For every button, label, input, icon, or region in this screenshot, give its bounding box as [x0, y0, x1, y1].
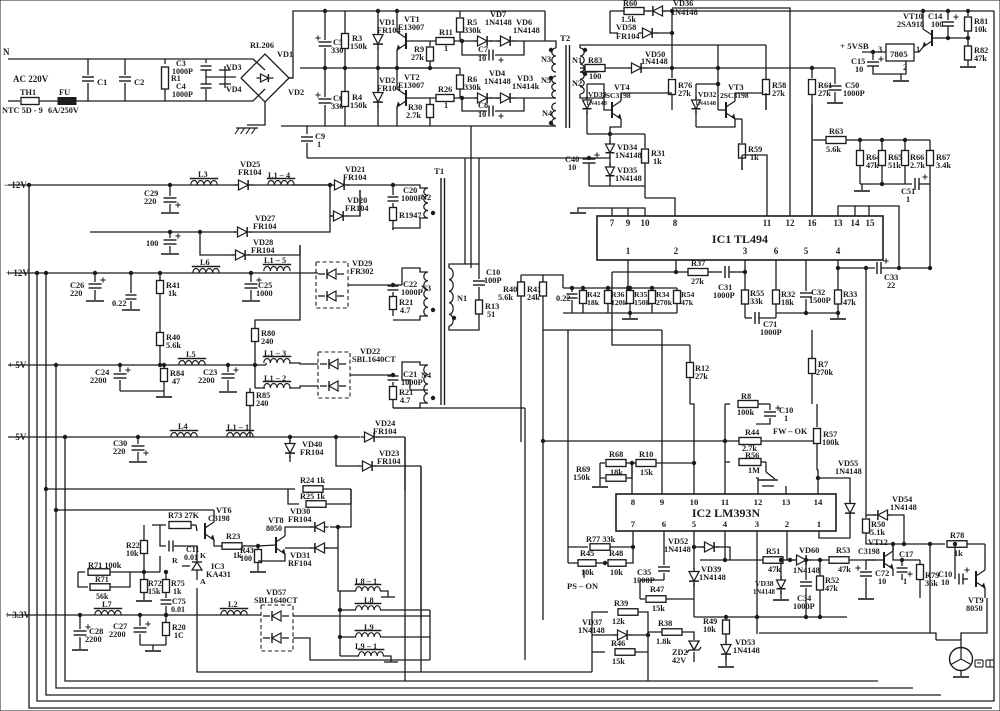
wire PS-ON drop [583, 570, 585, 578]
wire R58 VT3 emitter [765, 93, 767, 110]
svg-text:R8: R8 [741, 392, 751, 401]
svg-text:R83: R83 [588, 56, 602, 65]
svg-text:1N4148: 1N4148 [753, 589, 776, 596]
wire R67 bottom vertical [929, 184, 931, 268]
svg-text:4.7: 4.7 [400, 306, 410, 315]
capacitor C28 2200 [72, 615, 103, 650]
resistor R57 100k [814, 404, 840, 470]
svg-text:15k: 15k [640, 468, 653, 477]
svg-text:10: 10 [478, 110, 486, 119]
capacitor C50 1000P [829, 68, 865, 102]
svg-text:R11: R11 [439, 28, 453, 37]
inductor L9-1 [340, 642, 398, 662]
svg-text:120k: 120k [611, 298, 628, 307]
resistor R34 270k [649, 288, 673, 313]
wire mid bus under IC2 [694, 615, 847, 618]
svg-text:8: 8 [631, 497, 636, 507]
diode VD38 1N4148 [753, 558, 786, 599]
wire R12 top [612, 288, 690, 345]
capacitor C 100 [146, 230, 181, 254]
svg-text:R73 27K: R73 27K [168, 511, 200, 520]
capacitor C22 1000P [388, 280, 423, 297]
svg-text:1: 1 [903, 577, 907, 586]
svg-text:R25 1k: R25 1k [300, 492, 326, 501]
wire AC line top [8, 59, 265, 70]
svg-text:R77 33k: R77 33k [586, 535, 616, 544]
text +12V rail [6, 268, 29, 278]
svg-text:2.7k: 2.7k [910, 161, 925, 170]
resistor R49 10k [703, 617, 730, 643]
capacitor C24 2200 [90, 365, 131, 391]
diode VD20 FR104 [328, 183, 368, 221]
svg-text:10: 10 [941, 578, 949, 587]
rectifier VD57 SBL1640CT dual diode [254, 588, 298, 651]
svg-text:22: 22 [887, 281, 895, 290]
text FW - OK [773, 427, 808, 436]
wire N2 bottom to VD33 [587, 84, 604, 98]
svg-text:270k: 270k [656, 298, 673, 307]
capacitor C31 1000P [713, 266, 745, 300]
svg-text:FR104: FR104 [377, 457, 401, 466]
wire IC1 pin 16 up [811, 104, 813, 216]
svg-text:4: 4 [836, 246, 841, 256]
svg-text:L1 – 4: L1 – 4 [268, 171, 290, 180]
svg-text:330k: 330k [464, 83, 481, 92]
ground IC1 pin7 [570, 212, 586, 214]
svg-text:IC1 TL494: IC1 TL494 [712, 232, 768, 246]
diode VD36 1N4148 [644, 0, 994, 17]
svg-text:1000: 1000 [256, 289, 273, 298]
capacitor C7 [462, 41, 524, 63]
svg-text:FW – OK: FW – OK [773, 427, 808, 436]
svg-text:51k: 51k [888, 161, 901, 170]
diode VD60 1N4148 [793, 546, 830, 575]
svg-text:FR104: FR104 [251, 246, 275, 255]
svg-text:1N4148: 1N4148 [484, 77, 511, 86]
transistor VT9 8050 [966, 544, 985, 613]
capacitor C34 1000P [793, 558, 815, 617]
resistor R73 27K [152, 511, 200, 529]
svg-text:L4: L4 [178, 422, 188, 431]
svg-text:47k: 47k [768, 565, 781, 574]
diode VD37 1N4148 [578, 618, 650, 640]
svg-text:51: 51 [487, 310, 495, 319]
diode VD3 1N414k [489, 74, 540, 103]
resistor R68 18k [600, 450, 636, 477]
svg-text:4: 4 [723, 519, 728, 529]
inductor L7 [94, 600, 122, 615]
svg-text:R60: R60 [623, 0, 637, 8]
ground C50 [827, 102, 843, 104]
svg-text:1N4148: 1N4148 [695, 100, 717, 107]
IC2 bottom pin numbers [631, 519, 821, 529]
inductor L9 [340, 623, 430, 637]
svg-text:1N4148: 1N4148 [641, 57, 668, 66]
svg-text:10: 10 [855, 65, 863, 74]
svg-text:1: 1 [626, 246, 631, 256]
wire top feed vertical [670, 9, 673, 34]
ground R69 [592, 478, 608, 487]
svg-text:IC2 LM393N: IC2 LM393N [692, 506, 761, 520]
wire pin9 link [543, 329, 662, 331]
resistor R58 27k [763, 45, 787, 110]
fan symbol [950, 648, 995, 671]
resistor R13 51 [449, 300, 499, 330]
svg-text:C1: C1 [97, 77, 107, 87]
ground resistor row [622, 313, 638, 319]
transistor VT10 2SA918 [897, 12, 948, 52]
svg-text:47k: 47k [866, 161, 879, 170]
wire base node VT1 [454, 39, 478, 42]
svg-text:R56: R56 [745, 451, 759, 460]
capacitor C2 [119, 59, 144, 101]
diode VD28 FR104 [232, 238, 301, 260]
wire IC2 pin8 up [631, 463, 633, 494]
wire -5V bus drop B [197, 588, 592, 672]
transformer T2 core [560, 33, 571, 128]
svg-text:0.01: 0.01 [184, 553, 198, 562]
wire VD55 to pin1 [819, 531, 850, 538]
svg-text:RF104: RF104 [288, 559, 312, 568]
svg-text:3: 3 [755, 519, 760, 529]
svg-text:5: 5 [692, 519, 697, 529]
svg-text:10k: 10k [581, 568, 594, 577]
resistor R7 270k [809, 330, 834, 404]
svg-text:N3: N3 [421, 284, 431, 293]
wire +3.3V rail [8, 613, 261, 616]
wire right sense vertical [864, 266, 867, 515]
svg-text:E13007: E13007 [398, 23, 424, 32]
resistor R56 1M [725, 451, 766, 475]
svg-text:1k: 1k [173, 587, 182, 596]
capacitor C72 10 [855, 560, 889, 598]
resistor R3 [342, 11, 368, 68]
resistor R26 [436, 85, 454, 110]
svg-text:R47: R47 [650, 585, 664, 594]
resistor R33 47k [835, 268, 858, 313]
svg-text:150k: 150k [573, 473, 590, 482]
wire N4 tap [402, 375, 428, 390]
wire VT4 emitter node [587, 132, 645, 135]
svg-text:FR302: FR302 [350, 267, 374, 276]
svg-text:0.22: 0.22 [112, 299, 127, 308]
svg-text:N1: N1 [457, 294, 467, 303]
svg-text:VD1: VD1 [277, 50, 293, 59]
svg-text:1: 1 [444, 44, 448, 53]
svg-text:12k: 12k [612, 617, 625, 626]
diode VD34 1N4148 [606, 134, 642, 163]
svg-text:N: N [3, 47, 10, 57]
diode VD53 1N4148 [721, 638, 760, 666]
wire R61 bottom [811, 104, 813, 215]
IC1 top pin numbers [610, 218, 875, 228]
diode VD6 1N4148 [489, 18, 545, 46]
svg-text:27k: 27k [411, 53, 424, 62]
svg-text:9: 9 [660, 497, 665, 507]
text -5V rail [8, 432, 27, 442]
resistor R32 18k [773, 290, 796, 313]
wire VD29 out [348, 283, 395, 286]
wire L8 feed from VD30 [338, 548, 340, 591]
wire L8 L9 left bus [338, 591, 341, 656]
svg-text:1N4148: 1N4148 [513, 26, 540, 35]
svg-text:FR104: FR104 [616, 32, 640, 41]
wire FW-OK line [541, 439, 740, 442]
wire VT6 collector top [56, 509, 214, 511]
wire R81 C14 node [948, 36, 970, 39]
svg-text:R68: R68 [609, 450, 623, 459]
svg-text:36k: 36k [925, 579, 938, 588]
wire AC line bottom left [8, 100, 20, 102]
svg-text:1N4148: 1N4148 [615, 174, 642, 183]
zener ZD2 42V [672, 641, 701, 665]
wire R41 long vertical [542, 330, 544, 441]
IC U1 TL494 [597, 216, 883, 260]
wire C17 top [893, 544, 920, 560]
svg-text:R51: R51 [766, 547, 780, 556]
wire R40 long vertical [520, 330, 522, 442]
wire 5VSB feed [813, 139, 826, 141]
svg-text:2200: 2200 [198, 376, 215, 385]
wire top bus right end [993, 11, 995, 208]
resistor R44 2.7k [739, 428, 817, 453]
svg-text:L1 – 3: L1 – 3 [264, 349, 286, 358]
capacitor C30 220 [113, 437, 149, 462]
svg-text:R53: R53 [836, 546, 850, 555]
capacitor C33 22 [838, 258, 901, 290]
resistor R79 36k [917, 560, 940, 598]
svg-text:1N4148: 1N4148 [733, 646, 760, 655]
svg-text:1000P: 1000P [172, 90, 193, 99]
svg-text:L5: L5 [186, 350, 196, 359]
transformer T2 winding N5 [541, 76, 556, 98]
transistor VT8 8050 [258, 516, 300, 561]
wire IC2 pin13 stub [785, 486, 787, 494]
svg-text:+ 5VSB: + 5VSB [840, 41, 869, 51]
text AC 220V [13, 74, 49, 84]
resistor R20 1C [163, 615, 186, 645]
svg-text:1: 1 [906, 195, 910, 204]
wire IC2 pin3 down [756, 531, 758, 634]
svg-text:R24 1k: R24 1k [300, 476, 326, 485]
svg-text:6: 6 [662, 519, 667, 529]
svg-text:3: 3 [878, 45, 882, 54]
svg-text:12: 12 [786, 218, 796, 228]
wire pin5 bottom bus [776, 311, 840, 314]
svg-text:2200: 2200 [85, 635, 102, 644]
transformer T2 winding N4 primary [542, 103, 556, 126]
diode VD30 FR104 [288, 507, 329, 532]
wire VD23 branch [334, 435, 360, 466]
wire R63 to divider [858, 138, 930, 141]
wire bridge bottom to ground [247, 102, 265, 125]
wire feedback row [612, 271, 688, 273]
svg-text:13: 13 [834, 218, 844, 228]
diode VD54 1N4148 [866, 495, 917, 544]
svg-text:R44: R44 [745, 428, 759, 437]
svg-text:1N414k: 1N414k [512, 82, 540, 91]
wire T2 centre tap [580, 68, 604, 72]
capacitor C10 1 supervisor [756, 404, 793, 424]
svg-text:N2: N2 [572, 79, 582, 88]
ground R72 [136, 600, 152, 602]
svg-text:R78: R78 [950, 531, 964, 540]
capacitor 0.22 [556, 288, 578, 313]
svg-text:14: 14 [851, 218, 861, 228]
svg-text:5: 5 [804, 246, 809, 256]
shunt reference IC3 KA431 [172, 551, 231, 586]
svg-text:1N4148: 1N4148 [699, 573, 726, 582]
ground VD38 [773, 599, 789, 601]
svg-text:E13007: E13007 [398, 81, 424, 90]
capacitor C23 2200 [198, 365, 239, 392]
svg-text:10: 10 [690, 497, 699, 507]
svg-text:1500P: 1500P [809, 296, 831, 305]
wire divider bottom bus [860, 182, 912, 185]
capacitor C6 [315, 68, 343, 126]
resistor R41 24k [527, 275, 547, 330]
inductor L3 [190, 170, 218, 185]
svg-text:5.1k: 5.1k [870, 528, 885, 537]
svg-text:FR104: FR104 [288, 515, 312, 524]
diode VD32 1N4148 [692, 84, 717, 127]
wire base node VT2 [454, 96, 478, 99]
svg-text:16: 16 [808, 218, 818, 228]
wire pin2 row verticals [611, 272, 613, 288]
svg-text:1N4148: 1N4148 [485, 18, 512, 27]
svg-text:R45: R45 [580, 549, 594, 558]
svg-text:VD38: VD38 [755, 579, 774, 588]
wire IC2 pin4 down [723, 531, 726, 562]
svg-text:R63: R63 [829, 127, 843, 136]
capacitor C20 1000P [388, 183, 423, 207]
resistor R51 47k [763, 547, 795, 574]
wire R67 branch down [929, 544, 931, 633]
transistor VT12 C3198 [858, 538, 893, 576]
text +3.3V rail [5, 610, 31, 620]
transformer T1 winding N4 [393, 362, 435, 408]
diode VD50 1N4148 [628, 50, 836, 73]
diode VD27 FR104 [234, 214, 331, 237]
wire IC1 pin 11 up [742, 155, 767, 216]
inductor L8-1 [340, 577, 395, 597]
wire secondary return vertical A [393, 408, 525, 660]
resistor R53 47k [829, 546, 876, 574]
capacitor C11 0.01 [160, 525, 199, 562]
svg-text:R: R [172, 556, 178, 565]
svg-text:150k: 150k [350, 42, 367, 51]
svg-text:100: 100 [589, 72, 601, 81]
diode VD33 1N4148 [583, 84, 608, 134]
wire IC2 pin2 down [786, 531, 788, 560]
svg-text:1.8k: 1.8k [656, 637, 671, 646]
svg-text:L2: L2 [228, 600, 238, 609]
svg-text:24k: 24k [527, 293, 540, 302]
svg-text:L1 – 5: L1 – 5 [264, 256, 286, 265]
resistor R47 15k [640, 580, 694, 613]
svg-text:L1 – 2: L1 – 2 [264, 374, 286, 383]
wire VD57 anode out [293, 616, 430, 660]
svg-text:L9: L9 [364, 623, 374, 632]
svg-text:R46: R46 [611, 639, 625, 648]
wire VD50 junctions [670, 66, 813, 69]
svg-text:10: 10 [568, 163, 576, 172]
svg-text:SBL1640CT: SBL1640CT [352, 355, 396, 364]
wire VD32 top [696, 82, 720, 85]
capacitor C15 10 [851, 52, 906, 74]
svg-text:N4: N4 [542, 109, 552, 118]
diode VD1 FR104 [373, 11, 401, 68]
resistor R71 56k [78, 572, 130, 601]
svg-text:AC 220V: AC 220V [13, 74, 49, 84]
capacitor C1 [82, 59, 107, 101]
wire bridge output up to HV bus [289, 11, 545, 78]
rectifier VD22 SBL1640CT dual diode [318, 347, 396, 398]
diode VD31 RF104 [285, 525, 340, 568]
wire IC2 pin11 up [724, 404, 726, 494]
svg-text:FU: FU [59, 88, 70, 97]
svg-text:PS – ON: PS – ON [567, 581, 599, 591]
wire return line [307, 157, 610, 159]
resistor R83 100 [580, 56, 630, 81]
resistor row bottom bus [563, 311, 677, 314]
svg-text:VD3: VD3 [226, 63, 242, 72]
svg-text:VD60: VD60 [799, 546, 819, 555]
capacitor C26 220 [70, 273, 106, 301]
svg-text:1C: 1C [174, 631, 184, 640]
svg-text:0.22: 0.22 [556, 294, 571, 303]
svg-text:3: 3 [743, 246, 748, 256]
svg-text:NTC 5D - 9: NTC 5D - 9 [2, 106, 43, 115]
wire VD35 R31 bottom bus [589, 186, 645, 198]
wire -5V bus drop [65, 437, 878, 681]
inductor L1-3 [263, 349, 291, 365]
svg-text:C17: C17 [899, 550, 913, 559]
svg-text:R38: R38 [658, 619, 672, 628]
svg-text:10k: 10k [974, 25, 987, 34]
resistor R61 27k [809, 68, 833, 104]
svg-text:2SA918: 2SA918 [897, 20, 924, 29]
inductor L1-4 [267, 171, 295, 185]
resistor R48 10k [603, 547, 633, 577]
diode VD23 FR104 [359, 449, 422, 471]
svg-text:12: 12 [754, 497, 763, 507]
svg-text:100: 100 [240, 554, 252, 563]
resistor R5 330k [457, 11, 482, 41]
svg-text:33k: 33k [750, 297, 763, 306]
resistor R30 [406, 98, 434, 126]
capacitor C8 [462, 98, 524, 119]
svg-text:R37: R37 [691, 259, 705, 268]
capacitor C27 2200 [109, 615, 151, 645]
svg-text:C8: C8 [478, 101, 488, 110]
ground C72 [858, 598, 874, 600]
wire R40 R41 top bus [521, 275, 563, 288]
wire IC2 pin7 down [631, 531, 634, 549]
svg-text:7: 7 [631, 519, 636, 529]
resistor R31 1k [642, 134, 666, 186]
diode VD24 FR104 [361, 419, 406, 442]
svg-text:15: 15 [866, 218, 876, 228]
svg-text:3.4k: 3.4k [936, 161, 951, 170]
transistor VT2 E13007 [395, 66, 438, 126]
svg-text:N4: N4 [421, 371, 431, 380]
wire IC1 pin1 down [627, 260, 629, 288]
svg-text:L9 – 1: L9 – 1 [355, 642, 377, 651]
diode VD25 FR104 [235, 160, 262, 190]
transistor VT3 2SC3198 [696, 83, 766, 127]
svg-text:5.6k: 5.6k [166, 341, 181, 350]
